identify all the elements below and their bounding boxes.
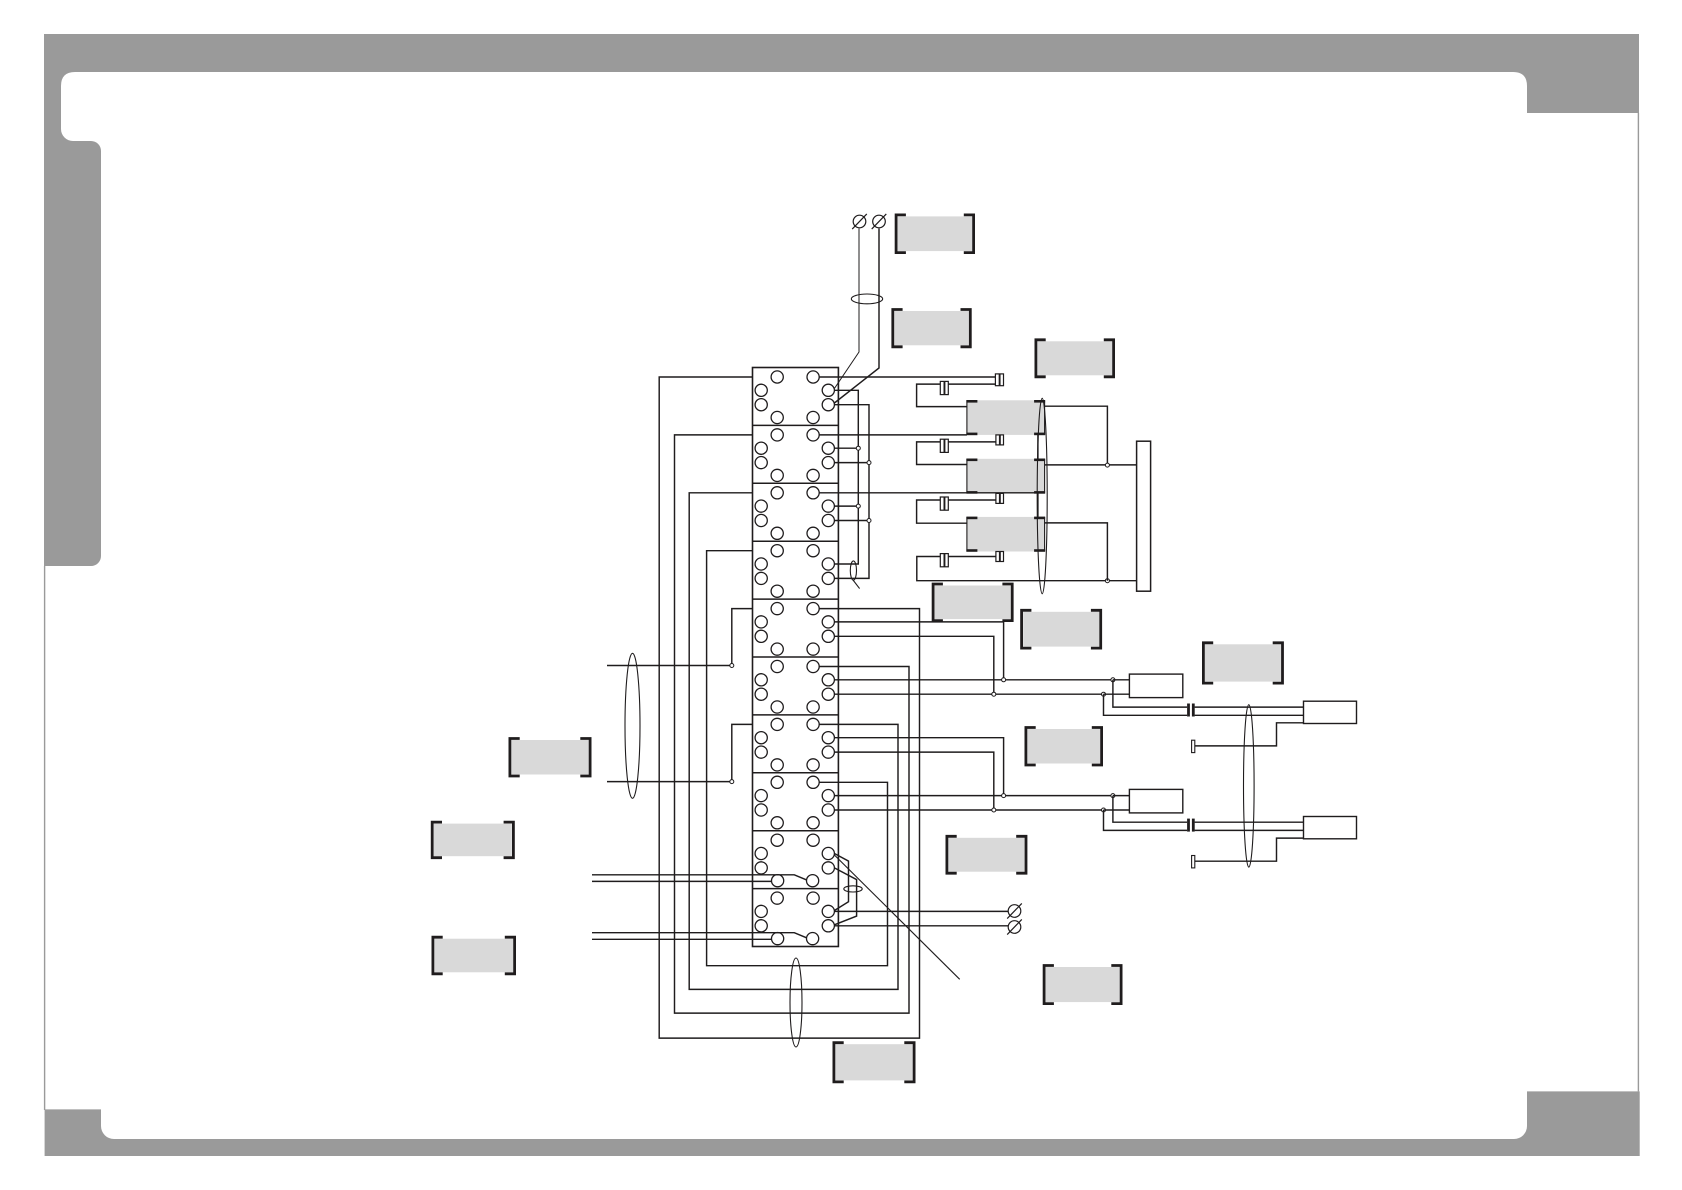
wire bypass 1 [834, 854, 848, 911]
node rail neutral sec2 [867, 461, 871, 465]
node junction B [730, 780, 734, 784]
terminal strip divider 2 [753, 482, 839, 484]
wire branch down lower 1 [1113, 796, 1187, 823]
coil box lower [1129, 789, 1182, 813]
connector CN upper [1189, 704, 1194, 717]
wire from P1 [834, 229, 859, 389]
node feed lower 2 [992, 808, 996, 812]
terminal strip divider 9 [753, 888, 839, 890]
node feed upper 2 [992, 692, 996, 696]
wire K3 out to J5 [948, 556, 996, 558]
coil box upper [1129, 674, 1182, 698]
wire rail neutral tap sec2 [834, 462, 869, 464]
wire bypass 2 [834, 868, 856, 925]
power terminal P1 [852, 214, 867, 229]
label box noise filter [1036, 340, 1114, 377]
wire branch down upper 2 [1104, 694, 1188, 715]
node feed upper 1 [1002, 678, 1006, 682]
wire branch down upper 1 [1113, 680, 1187, 707]
wire K2 to bus [1045, 464, 1137, 466]
wire branch down lower 2 [1104, 810, 1188, 830]
label box power cord [893, 310, 971, 347]
relay K1 [966, 400, 1045, 435]
node rail live sec2 [856, 446, 860, 450]
wire J4 to relay K3 [917, 500, 967, 523]
wire rail live tap sec3 [834, 505, 858, 507]
wire J5 to bus node [917, 557, 1137, 581]
wire J3 to relay K2 [917, 442, 967, 465]
wire sec3 to K2 [819, 492, 1044, 494]
connector K2 out [996, 493, 1004, 503]
label box main pwb [834, 1043, 914, 1082]
wire plug tail upper [1195, 723, 1304, 746]
terminal strip divider 3 [753, 540, 839, 542]
wire CN to plug lower 1 [1195, 821, 1304, 823]
wire K2-K3 link [1037, 493, 1039, 517]
label box pump [1203, 643, 1282, 683]
page frame: bottom band with corner blocks [45, 1091, 1640, 1156]
connector J2 [940, 381, 948, 394]
wire sec8 r2 feed lower [834, 795, 1113, 797]
wire wrap loop 2 [675, 435, 910, 1013]
wire sec6 r2 feed upper [834, 679, 1113, 681]
label box valve [947, 836, 1026, 873]
wire K2 out to J4 [948, 499, 996, 501]
page frame: top band, left chapter tab, top-right corner block [44, 34, 1639, 566]
label box earth [433, 937, 515, 974]
terminal strip divider 4 [753, 598, 839, 600]
connector J5 [940, 554, 948, 567]
wire from P2 [834, 229, 879, 404]
wire into coil lower 2 [1104, 809, 1130, 811]
node branch lower 1 [1111, 794, 1115, 798]
power terminal P4 [1007, 919, 1022, 934]
wire sec7 r3 feed lower [834, 752, 993, 810]
connector J4 [940, 497, 948, 510]
cable bundle ellipse over relays [1037, 398, 1047, 594]
connector J1 [995, 374, 1003, 386]
cable hook symbol on rail [850, 561, 856, 580]
relay K3 [966, 517, 1045, 552]
cable clamp ellipse on power wires [851, 294, 882, 304]
node branch upper 1 [1111, 678, 1115, 682]
wire rail live [834, 390, 858, 564]
plug box upper [1304, 701, 1357, 723]
label box motor upper [1026, 728, 1102, 766]
node bus lower [1105, 579, 1109, 583]
wire into coil upper 2 [1104, 693, 1130, 695]
wire J2 to relay K1 [917, 384, 967, 407]
wire sec5 r2 feed upper [834, 622, 1003, 680]
wire sec5 r3 feed upper [834, 636, 993, 694]
connector K1 out [996, 435, 1004, 445]
bus bar [1137, 441, 1151, 591]
terminal strip divider 8 [753, 830, 839, 832]
terminal strip divider 7 [753, 772, 839, 774]
wire sec9 switch feed upper [592, 875, 807, 880]
label box switch [1044, 966, 1121, 1004]
node branch lower 2 [1102, 808, 1106, 812]
wire plug tail lower [1195, 838, 1304, 861]
label box heater top [896, 215, 974, 253]
plug box lower [1304, 817, 1357, 839]
node feed lower 1 [1002, 794, 1006, 798]
wire sec10 switch feed lower [592, 938, 772, 940]
wire J2 to J1 [948, 383, 995, 385]
wire rail live tap sec2 [834, 447, 858, 449]
label box sensor left [510, 739, 590, 777]
connector CN lower [1189, 819, 1194, 832]
connector J3 [940, 439, 948, 452]
wire sec10 to P3 [834, 910, 1008, 912]
callout leader line [834, 855, 959, 979]
page frame: left thin rule below tab [44, 566, 45, 1110]
page frame: right thin rule [1638, 113, 1639, 1091]
node rail live sec3 [856, 504, 860, 508]
terminal strip divider 5 [753, 656, 839, 658]
terminal strip divider 6 [753, 714, 839, 716]
wire sec9 switch feed lower [592, 880, 772, 882]
node rail neutral sec3 [867, 519, 871, 523]
terminal strip body CN [753, 368, 839, 947]
wire rail neutral tap sec3 [834, 520, 869, 522]
cable bundle ellipse right [1244, 705, 1255, 867]
wire sec1 to connector J1 [819, 376, 995, 378]
connector K3 out [996, 552, 1004, 562]
terminal pin upper [1192, 740, 1195, 752]
wire wrap loop 4 [707, 551, 888, 966]
wire CN to plug upper 1 [1195, 706, 1304, 708]
wire K1 to bus [1045, 406, 1108, 465]
node bus upper [1105, 463, 1109, 467]
cable bundle ellipse left [625, 653, 640, 798]
wire wrap loop 3 [689, 493, 898, 990]
cable clamp ellipse on bypass wires [844, 886, 862, 892]
relay K2 [966, 459, 1045, 494]
wire CN to plug upper 2 [1195, 714, 1304, 716]
wire wrap loop 1 [659, 377, 919, 1038]
node branch upper 2 [1102, 692, 1106, 696]
wire sec8 r3 feed lower [834, 809, 1103, 811]
power terminal P2 [872, 214, 887, 229]
wire sec7 r2 feed lower [834, 738, 1003, 796]
wire sec10 to P4 [834, 925, 1008, 927]
wire sec2 to K1 [819, 434, 967, 436]
label box relay legend [933, 584, 1012, 621]
wire K3 to bus [1045, 523, 1108, 581]
wire sec7 left entry [607, 724, 753, 781]
terminal pin lower [1192, 856, 1195, 868]
power terminal P3 [1007, 903, 1022, 918]
wire sec5 left entry [607, 609, 753, 666]
terminal strip divider 1 [753, 424, 839, 426]
wire CN to plug lower 2 [1195, 829, 1304, 831]
terminal strip contact circles [755, 371, 834, 945]
wire K1 out to J3 [948, 441, 996, 443]
cable bundle ellipse bottom [790, 958, 802, 1047]
wire K1-K2 link [1037, 435, 1039, 459]
wire rail neutral [834, 405, 869, 579]
wire into coil lower 1 [1113, 795, 1130, 797]
label box thermostat [1022, 610, 1101, 648]
label box door sw [432, 822, 513, 858]
wire into coil upper 1 [1113, 679, 1130, 681]
wire sec6 r3 feed upper [834, 693, 1103, 695]
wire sec10 switch feed upper [592, 933, 807, 938]
node junction A [730, 664, 734, 668]
